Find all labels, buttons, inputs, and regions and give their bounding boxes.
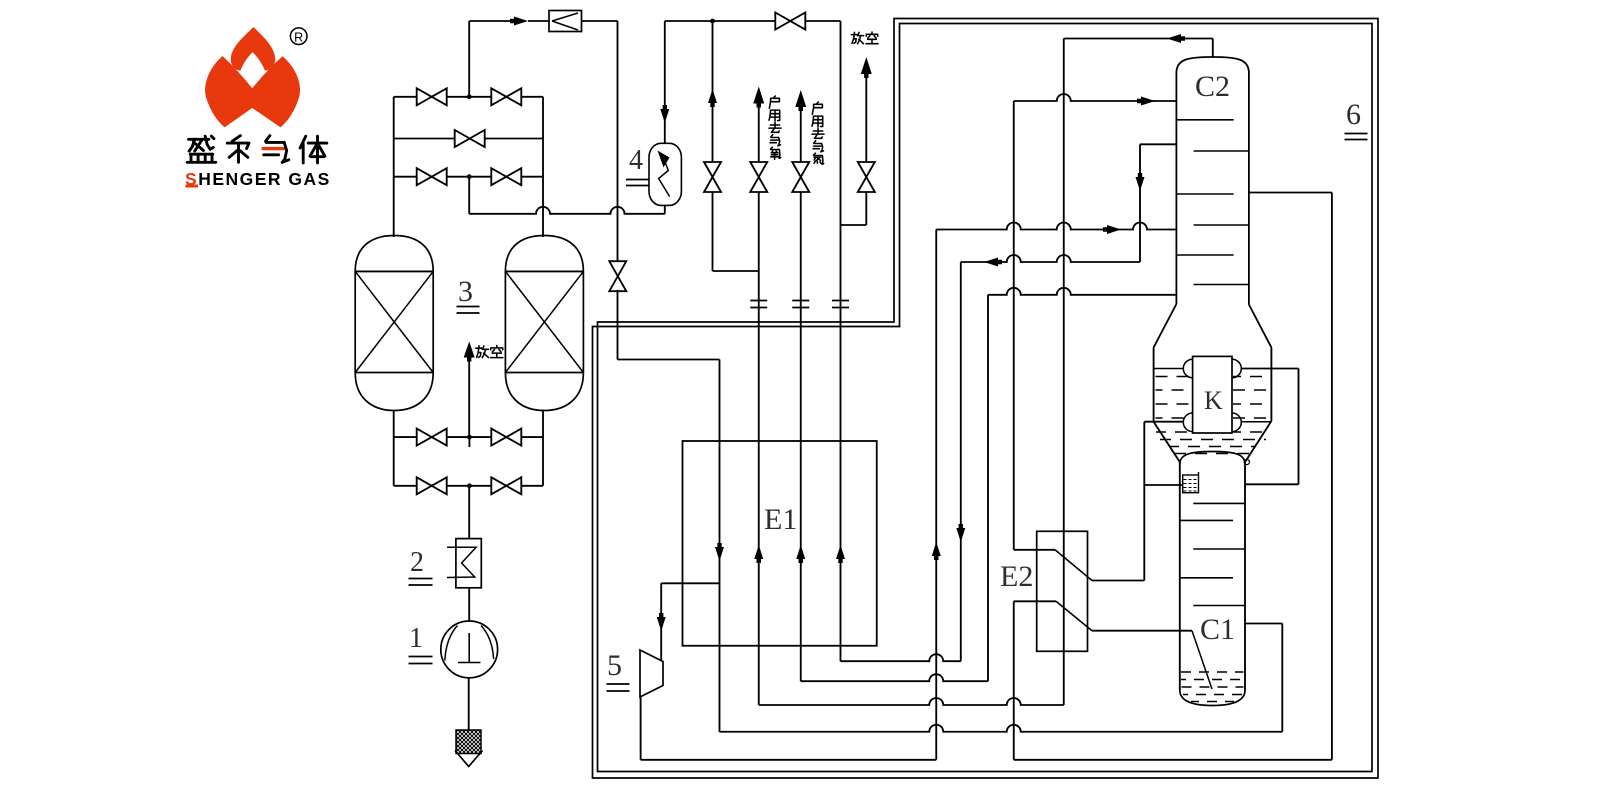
aftercooler 2 (water cooled) — [456, 539, 481, 588]
line1 into C2 with hops — [936, 223, 1176, 230]
manifold row 4 with valves — [394, 436, 543, 438]
K top-left stub — [1154, 368, 1184, 370]
condenser K (block with headers) — [1193, 356, 1232, 433]
logo text sheng-er-qi-ti — [189, 138, 209, 141]
wire to E1 inlet — [618, 359, 720, 361]
riser manifold to filter line — [468, 21, 470, 97]
turbo-expander 5 — [640, 650, 663, 697]
heater bottom stub — [664, 205, 666, 213]
riser x1013 down to E2 — [1013, 101, 1015, 550]
E2 pass 1 (from x1013 to x1144) — [1014, 549, 1055, 551]
upper column C2 shell — [1176, 57, 1249, 305]
pipe crossing seals on product lines — [750, 300, 767, 302]
logo flame central tongue with inner flame notch — [231, 27, 275, 71]
line y262 from C2 via x1140 with hops — [961, 255, 1140, 262]
electric heater 4 (capsule with element) — [649, 143, 681, 205]
junction dot row3 — [467, 174, 472, 179]
junction dot row4 — [467, 435, 472, 440]
turbine outlet to C2 riser — [640, 697, 642, 760]
wire intake to compressor — [468, 678, 470, 730]
heater header line y21 with valve — [665, 20, 776, 22]
manifold row 3 with valves — [394, 176, 543, 178]
riser x936 to C2 feed line1 — [935, 230, 937, 760]
junction dot row5 — [467, 483, 472, 488]
oxygen product line x800 with valve and user arrow — [800, 95, 802, 162]
vent label fangkong middle — [478, 346, 480, 348]
K bottom-right stub — [1241, 421, 1271, 423]
liquid oxygen level dashes in condenser — [1156, 376, 1192, 378]
C1 gas line right to y731 — [1245, 623, 1282, 625]
svg-text:C2: C2 — [1195, 70, 1230, 103]
logo char qi with red stroke — [266, 136, 270, 142]
line y681 to x988 riser — [801, 674, 988, 681]
compressor 1 (circle) — [441, 621, 498, 678]
logo red bar under S — [186, 185, 199, 188]
riser x1063 down to y705 — [1063, 39, 1065, 706]
svg-text:E1: E1 — [764, 503, 797, 536]
line y295 into C2 with hops — [988, 288, 1176, 295]
x1144 line down to E2 with branch to C1 top filter — [1143, 422, 1145, 581]
svg-text:SHENGER GAS: SHENGER GAS — [185, 169, 331, 189]
nitrogen product line x758 with valve and user arrow — [758, 92, 760, 162]
E2 pass 2 (from x1013 to C1) — [1014, 600, 1056, 602]
logo flame left petal — [205, 56, 253, 127]
vent branch from x840 — [841, 224, 867, 226]
condenser shell cone bottom — [1154, 422, 1180, 462]
riser x1332 to C2 right nozzle — [1331, 193, 1333, 760]
junction dot y21 — [710, 19, 715, 24]
logo registered trademark symbol — [290, 28, 307, 45]
liquid dashes in C1 sump — [1181, 671, 1244, 673]
regeneration return line x840 down through E1 — [840, 21, 842, 661]
manifold row 2 with bypass valve — [394, 138, 543, 140]
wire compressor to aftercooler — [468, 588, 470, 621]
line y731 to x719 with hops — [720, 725, 1283, 732]
riser x961 — [960, 262, 962, 661]
main heat exchanger E1 — [683, 441, 877, 646]
bottom manifold rails — [393, 411, 395, 486]
subcooler E2 — [1037, 531, 1088, 651]
svg-text:E2: E2 — [1000, 560, 1033, 593]
manifold row 5 with valves — [394, 485, 543, 487]
C1 trays — [1193, 502, 1245, 504]
line y760 right to x1332 — [1014, 759, 1332, 761]
wire aftercooler to valve manifold — [468, 486, 470, 539]
rich liquid line C1 to E2 with dip tube — [1092, 630, 1192, 632]
vent line from row4 — [468, 358, 470, 437]
C2 trays — [1176, 119, 1233, 121]
K top-right line to C1 via x1298 — [1241, 368, 1298, 370]
line y705 to x1063 riser — [759, 698, 1064, 705]
svg-text:C1: C1 — [1200, 613, 1235, 646]
svg-text:4: 4 — [629, 145, 643, 176]
cold box frame (insulated enclosure, double line) — [593, 19, 1379, 779]
manifold left rail — [393, 97, 395, 237]
K bottom-left line to x1144 — [1144, 421, 1183, 423]
svg-text:5: 5 — [607, 649, 622, 682]
vertical label oxygen-to-users (col at x819) — [817, 102, 818, 103]
E1 internal flow arrows — [715, 543, 724, 561]
liquid adsorber pot in C1 top (hatched box) — [1183, 475, 1199, 493]
svg-text:R: R — [294, 31, 303, 45]
manifold right rail — [542, 97, 544, 237]
svg-text:6: 6 — [1346, 98, 1361, 131]
wire filter to main down line — [582, 20, 618, 22]
main air line down with valve — [617, 21, 619, 263]
dust filter — [549, 11, 582, 32]
heater 4 stub — [664, 21, 666, 143]
E1 air pass line down through E1 — [719, 360, 721, 733]
svg-text:1: 1 — [409, 623, 423, 654]
vent label fangkong top — [853, 32, 855, 34]
junction dot row1 — [467, 94, 472, 99]
lower column C1 shell — [1180, 452, 1245, 465]
svg-text:3: 3 — [458, 275, 473, 308]
C2 top gas line to x1063 riser — [1212, 39, 1214, 58]
manifold row 1 with valves — [394, 96, 543, 98]
reflux line y101 from x1013 — [1014, 94, 1177, 101]
line y661 to x961 riser — [841, 654, 961, 661]
svg-text:2: 2 — [410, 547, 424, 578]
condenser shell walls — [1153, 348, 1155, 422]
vertical label nitrogen-to-users (col at x776) — [774, 96, 775, 97]
x712 branch with valve to heater header — [712, 21, 714, 162]
row3 to heater line with hops — [468, 177, 470, 214]
adsorber vessel 3a — [355, 236, 433, 411]
inlet filter line to dust filter — [469, 20, 513, 22]
condenser shell cone top — [1154, 304, 1177, 348]
turbine tap line — [661, 582, 719, 584]
logo flame right petal — [252, 56, 300, 127]
svg-text:K: K — [1204, 386, 1223, 415]
adsorber vessel 3b — [505, 236, 583, 411]
x1013 lower segment down to y760 — [1013, 601, 1015, 760]
